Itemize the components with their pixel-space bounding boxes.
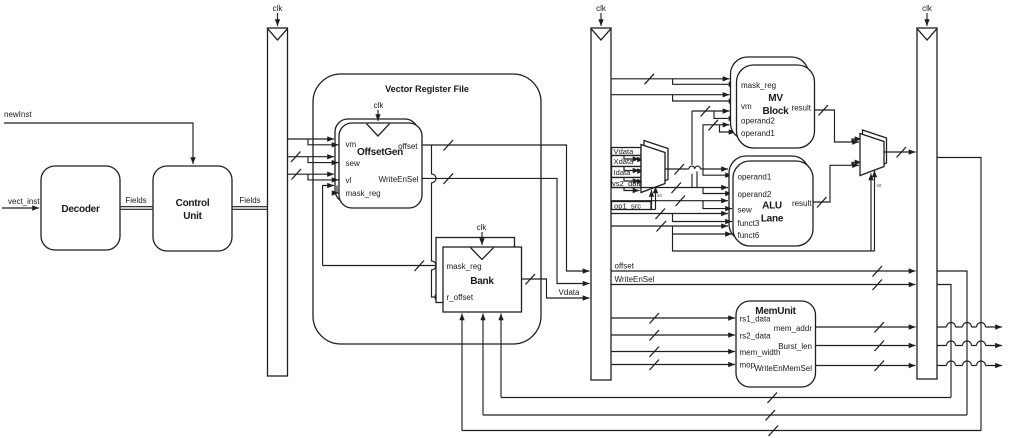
svg-text:clk: clk: [374, 101, 385, 110]
svg-text:operand1: operand1: [741, 129, 775, 138]
svg-text:vs2_data: vs2_data: [612, 179, 644, 188]
wire vs2_data continuation to ALU operand2: [612, 183, 733, 194]
svg-text:s0: s0: [657, 193, 662, 198]
svg-text:mop: mop: [740, 361, 756, 370]
container Vector Register File: [313, 74, 541, 344]
block MV Block (stacked pair): [731, 57, 815, 148]
svg-text:Unit: Unit: [183, 211, 202, 222]
wire result mux select from funct6 drop: [673, 171, 882, 252]
wire mask_reg feedback into Bank mask_reg with slash: [323, 261, 443, 272]
block ALU Lane (stacked pair): [729, 156, 813, 246]
wire riser vs2_data up to MV operand2: [692, 111, 697, 188]
label box Vdata on bar2 output: [612, 147, 642, 156]
svg-text:Decoder: Decoder: [61, 204, 100, 215]
svg-text:Fields: Fields: [125, 196, 146, 205]
svg-text:sew: sew: [346, 159, 360, 168]
wire bar2 to MV Block vm: [611, 95, 736, 101]
wire vs2_data into operand mux: [624, 188, 640, 191]
wire bar2 to ALU sew: [611, 196, 732, 209]
pipeline register bar 1 with clk: [268, 4, 288, 376]
wire ALU result to result mux: [814, 162, 862, 207]
wire offset bar2 to bar3: [611, 262, 916, 277]
wire bar1 to OffsetGen sew: [288, 152, 339, 163]
wire mux output to ALU operand1 with hops: [665, 164, 732, 175]
wire WriteEnSel bar2 to bar3: [611, 275, 916, 290]
wire vect_inst into Decoder: [2, 197, 40, 208]
svg-text:offset: offset: [398, 142, 418, 151]
svg-text:r_offset: r_offset: [447, 293, 474, 302]
wire writeback 2 from bar3 into Bank bottom: [483, 314, 967, 421]
label box op1_src and mux select wire: [612, 187, 663, 211]
svg-text:clk: clk: [596, 4, 607, 13]
result mux (stacked pair): [860, 130, 887, 176]
block OffsetGen (stacked pair) with clk notch: [335, 101, 422, 208]
svg-text:Control: Control: [176, 198, 210, 209]
wire bar2 to ALU funct3: [611, 209, 732, 222]
svg-text:newInst: newInst: [4, 110, 32, 119]
svg-text:vm: vm: [741, 102, 752, 111]
svg-text:Fields: Fields: [239, 196, 260, 205]
wire bar2 to MemUnit mem_width: [611, 347, 735, 358]
svg-text:rs2_data: rs2_data: [740, 332, 772, 341]
wire mask_reg feedback into OffsetGen mask_reg: [323, 186, 339, 266]
wire MemUnit Burst_len to bar3: [816, 341, 916, 352]
svg-text:clk: clk: [922, 4, 933, 13]
wire OffsetGen WriteEnSel output to bar2: [422, 173, 590, 283]
svg-text:op1_src: op1_src: [614, 201, 641, 210]
wire mux output riser to MV operand1: [703, 120, 736, 169]
svg-text:mask_reg: mask_reg: [346, 189, 381, 198]
wire writeback 1 from bar3 into Bank bottom: [501, 314, 951, 404]
svg-text:WriteEnSel: WriteEnSel: [379, 175, 419, 184]
wire Xdata into operand mux: [624, 167, 644, 172]
wire bar2 to MV Block mask_reg: [611, 74, 736, 85]
label box Xdata: [612, 156, 642, 167]
svg-text:Lane: Lane: [761, 214, 784, 225]
block Bank (stacked pair) with clk notch: [436, 223, 522, 312]
wire bar2 to MemUnit mop: [611, 360, 735, 371]
wire Vdata into operand mux: [624, 156, 644, 160]
svg-text:vl: vl: [346, 176, 352, 185]
wire offset feedback down to Bank r_offset with hops: [432, 145, 442, 297]
wire Bank output Vdata to bar2: [522, 274, 590, 298]
pipeline register bar 3 with clk: [917, 4, 937, 379]
svg-text:result: result: [792, 199, 812, 208]
svg-text:operand2: operand2: [738, 190, 772, 199]
wire Fields bus Decoder to Control Unit: [120, 196, 153, 209]
wire feedback bar3 right y157 down: [937, 158, 981, 431]
wire bar3 mem_addr out with hops: [937, 323, 1002, 328]
wire bar3 Burst_len out with hops: [937, 341, 1002, 346]
svg-text:mem_width: mem_width: [740, 348, 781, 357]
wire MV result to result mux: [815, 105, 862, 142]
wire OffsetGen offset output to bar2: [422, 140, 590, 271]
wire result mux output to bar3: [884, 147, 916, 158]
wire bar1 to OffsetGen vl: [288, 169, 339, 180]
wire MemUnit WriteEnMemSel to bar3: [816, 361, 916, 372]
wire bar3 WriteEnMemSel out with hops: [937, 361, 1002, 366]
wire Fields bus Control Unit to pipeline register 1: [232, 196, 268, 209]
svg-text:OffsetGen: OffsetGen: [357, 147, 403, 158]
svg-text:sew: sew: [738, 206, 752, 215]
block Decoder: [41, 166, 120, 250]
svg-text:clk: clk: [273, 4, 284, 13]
label box vs2_data: [612, 178, 644, 189]
svg-text:ALU: ALU: [762, 201, 782, 212]
svg-text:Idata: Idata: [614, 168, 632, 177]
wire writeback 3 from bar3 into Bank bottom: [462, 314, 981, 437]
wire MemUnit mem_addr to bar3: [816, 322, 916, 333]
svg-text:funct3: funct3: [738, 219, 760, 228]
svg-text:rs1_data: rs1_data: [740, 315, 772, 324]
svg-text:funct6: funct6: [738, 231, 760, 240]
block MemUnit: [736, 301, 816, 387]
wire Idata into operand mux: [624, 178, 644, 182]
operand source mux (stacked pair): [641, 141, 668, 193]
svg-text:mem_addr: mem_addr: [774, 324, 813, 333]
wire bar2 to MemUnit rs1_data: [611, 313, 735, 324]
svg-text:clk: clk: [477, 223, 488, 232]
svg-text:mask_reg: mask_reg: [741, 81, 776, 90]
svg-text:vm: vm: [346, 140, 357, 149]
wire bar2 to MemUnit rs2_data: [611, 330, 735, 341]
svg-text:vect_inst: vect_inst: [8, 197, 40, 206]
svg-text:offset: offset: [615, 262, 635, 271]
svg-text:Vector Register File: Vector Register File: [385, 84, 469, 94]
wire bar1 to OffsetGen vm: [288, 139, 339, 145]
svg-text:WriteEnSel: WriteEnSel: [615, 275, 655, 284]
svg-text:operand1: operand1: [738, 173, 772, 182]
wire MV operand2 horizontals: [692, 106, 736, 118]
pipeline register bar 2 with clk: [591, 4, 611, 380]
svg-text:s0: s0: [877, 183, 882, 188]
svg-text:mask_reg: mask_reg: [447, 262, 482, 271]
svg-text:Vdata: Vdata: [614, 147, 635, 156]
wire feedback bar3 right offset down: [937, 271, 967, 415]
svg-text:Vdata: Vdata: [559, 288, 580, 297]
svg-text:Bank: Bank: [470, 276, 494, 287]
svg-text:Burst_len: Burst_len: [778, 342, 812, 351]
svg-text:operand2: operand2: [741, 117, 775, 126]
svg-text:WriteEnMemSel: WriteEnMemSel: [754, 364, 812, 373]
svg-text:result: result: [791, 104, 811, 113]
svg-text:Block: Block: [763, 106, 790, 117]
block Control Unit: [153, 166, 232, 251]
label box Idata: [612, 167, 642, 178]
wire feedback bar3 right WriteEnSel down: [937, 285, 951, 398]
svg-text:MV: MV: [768, 93, 783, 104]
wire newInst into Control Unit: [4, 110, 193, 164]
wire bar2 to ALU funct6: [611, 221, 732, 234]
